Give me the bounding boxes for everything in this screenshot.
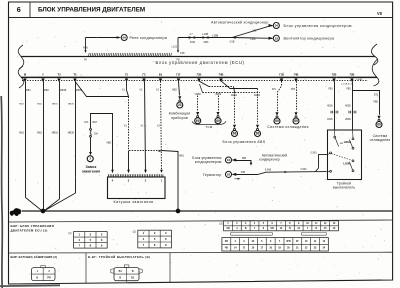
ABS wire 2 <box>257 89 259 125</box>
component circle 69 <box>255 131 261 137</box>
svg-text:ТЗ: ТЗ <box>57 74 61 77</box>
component lead arrow <box>216 112 219 116</box>
component circle 69 <box>293 118 299 124</box>
svg-text:МВ2Б: МВ2Б <box>68 104 74 106</box>
header cell divider <box>29 2 31 18</box>
svg-text:ВКЛ: ВКЛ <box>93 122 98 124</box>
svg-text:МВ2: МВ2 <box>37 133 42 135</box>
wire pin Г2В route <box>200 81 209 86</box>
svg-text:Блок управления двигателем (EC: Блок управления двигателем (ECU) <box>156 60 245 65</box>
wire РВ1 down to switch <box>334 81 336 130</box>
A/C feed wire <box>178 37 232 39</box>
branch wire pin Т5 to coil <box>76 82 129 97</box>
svg-text:Блок управления кондиционером: Блок управления кондиционером <box>284 24 352 28</box>
svg-text:охлаждения: охлаждения <box>370 138 391 142</box>
scan edge shadow left <box>1 96 2 288</box>
svg-text:V8: V8 <box>377 11 383 16</box>
svg-text:Термистор: Термистор <box>203 173 222 177</box>
ABS wire 1 <box>234 92 236 124</box>
svg-text:1.49В: 1.49В <box>202 34 209 36</box>
wire from thermistor to switch <box>236 172 326 175</box>
power bus wire <box>21 56 375 58</box>
svg-text:69: 69 <box>196 119 200 123</box>
svg-text:69: 69 <box>275 119 279 123</box>
coil wire 1 dashed <box>161 81 162 172</box>
body ground clamp icon <box>10 208 21 216</box>
component lead arrow <box>196 112 199 116</box>
wire from pin x=59 down <box>59 81 61 199</box>
svg-text:ВНР: КАТУШКА ЗАЖИГАНИЯ (2): ВНР: КАТУШКА ЗАЖИГАНИЯ (2) <box>11 255 58 259</box>
cooling wire 2 <box>296 81 298 111</box>
svg-text:Система охлаждения: Система охлаждения <box>267 125 309 129</box>
svg-text:0.5ЧВ: 0.5ЧВ <box>356 79 362 81</box>
svg-text:4Б2Б: 4Б2Б <box>345 106 351 108</box>
header bar bottom line <box>9 17 393 19</box>
small direction arrow <box>238 178 241 180</box>
strip squiggle right <box>372 59 379 86</box>
svg-text:4ВБ: 4ВБ <box>242 158 247 160</box>
svg-text:МВ1: МВ1 <box>19 133 24 135</box>
svg-text:Г4В: Г4В <box>219 74 224 77</box>
coil pin 3 arrow <box>127 170 130 173</box>
svg-text:МВ1Б: МВ1Б <box>52 104 58 106</box>
svg-text:10А: 10А <box>84 121 89 124</box>
branch L into switch HIGH <box>316 154 328 171</box>
svg-text:L103: L103 <box>172 46 178 49</box>
bus shielding hatch <box>89 53 172 56</box>
svg-text:69: 69 <box>216 119 220 123</box>
svg-text:выключатель: выключатель <box>333 186 356 190</box>
cooling wire 1 <box>278 81 282 111</box>
svg-text:1.5ВВ: 1.5ВВ <box>212 36 219 38</box>
switch left pin contacts <box>330 152 332 154</box>
converge diagonals to ground junction <box>26 198 42 211</box>
bottom row divider 1 <box>85 253 87 283</box>
svg-text:(1): (1) <box>68 231 71 235</box>
svg-text:6: 6 <box>17 5 21 14</box>
component circle 69 <box>215 118 221 124</box>
svg-text:В: В <box>119 277 121 280</box>
svg-text:МВ2: МВ2 <box>37 104 42 106</box>
wire to instrument cluster <box>179 81 180 95</box>
svg-text:ГЗ: ГЗ <box>143 74 146 77</box>
svg-text:ЗГВ: ЗГВ <box>291 89 296 91</box>
component pin <box>276 116 278 118</box>
component lead arrow <box>275 112 278 116</box>
svg-text:Катушка зажигания: Катушка зажигания <box>114 200 154 204</box>
ECU pin table upper bank <box>224 221 339 231</box>
svg-text:Г1Г: Г1Г <box>176 74 181 77</box>
svg-text:ДВИГАТЕЛЕМ ECU (3): ДВИГАТЕЛЕМ ECU (3) <box>11 228 48 232</box>
bottom row top line <box>9 251 393 254</box>
component pin <box>378 119 380 121</box>
dashed cross route <box>203 92 261 94</box>
svg-text:МВ1: МВ1 <box>26 90 31 92</box>
A/C unit circle 34 <box>231 159 236 162</box>
svg-text:кондиционер: кондиционер <box>259 158 280 162</box>
wire pin Г4В route <box>222 81 258 88</box>
svg-text:Г4В: Г4В <box>294 74 299 77</box>
svg-text:0.5В: 0.5В <box>230 42 235 44</box>
triple switch box <box>328 130 362 180</box>
svg-text:34: 34 <box>227 158 231 162</box>
connector pair 2 <box>202 36 206 39</box>
svg-text:БЛОК УПРАВЛЕНИЯ ДВИГАТЕЛЕМ: БЛОК УПРАВЛЕНИЯ ДВИГАТЕЛЕМ <box>38 6 145 13</box>
ignition coil box <box>108 177 166 199</box>
branch to A/C control unit <box>232 26 273 38</box>
A/C control unit circle 34 <box>269 24 274 27</box>
wire from pin x=25 down <box>25 81 27 197</box>
table section top line <box>9 220 393 222</box>
svg-text:20А: 20А <box>94 132 99 135</box>
svg-text:Г1В: Г1В <box>279 74 284 77</box>
svg-text:ТСМ: ТСМ <box>206 125 213 129</box>
component lead arrow <box>233 125 236 129</box>
svg-text:ЧМВ2: ЧМВ2 <box>215 94 222 96</box>
svg-text:0.85: 0.85 <box>180 53 185 55</box>
svg-text:кондиционером: кондиционером <box>195 160 222 164</box>
svg-text:РВ1: РВ1 <box>328 88 333 90</box>
ECU pin table lower bank <box>222 238 328 251</box>
svg-text:69: 69 <box>294 119 298 123</box>
svg-text:L203: L203 <box>250 39 256 41</box>
bus break squiggle left <box>18 45 24 69</box>
bus tap arrow M86 <box>84 50 86 53</box>
svg-text:Г2Б: Г2Б <box>350 74 355 77</box>
wire from pin x=75 down <box>75 81 77 193</box>
TCM brace <box>192 121 226 124</box>
svg-text:ЧВ: ЧВ <box>226 228 230 230</box>
switch contact top-left <box>334 130 336 136</box>
svg-text:Блок управления ABS: Блок управления ABS <box>223 140 266 144</box>
svg-text:7: 7 <box>89 157 91 161</box>
svg-text:зажигания: зажигания <box>82 170 100 174</box>
svg-text:МВ1: МВ1 <box>179 156 184 158</box>
svg-text:ЧБ: ЧБ <box>271 228 275 230</box>
wire to fan circle <box>232 37 273 40</box>
svg-text:ЗГВ: ЗГВ <box>286 241 291 243</box>
svg-text:2030: 2030 <box>190 42 196 44</box>
svg-text:1.5 ЧВ 0.5 В: 1.5 ЧВ 0.5 В <box>341 83 353 85</box>
svg-text:Г2В: Г2В <box>332 74 337 77</box>
svg-text:РВБ: РВБ <box>373 102 378 104</box>
dashed link wire <box>129 150 162 152</box>
svg-text:2Б2Б: 2Б2Б <box>345 119 351 121</box>
coil pin 4 arrow <box>111 170 114 173</box>
svg-text:Реле кондиционера: Реле кондиционера <box>130 36 168 40</box>
ground rail <box>22 210 393 212</box>
ground junction 2 <box>176 209 181 214</box>
switch contacts HIGH <box>352 130 355 138</box>
coil pin 2 arrow <box>144 170 147 173</box>
connector pair 3 <box>231 36 236 39</box>
svg-text:M86: M86 <box>83 46 88 49</box>
svg-text:приборов: приборов <box>171 116 188 120</box>
svg-text:52: 52 <box>227 173 231 177</box>
svg-text:(3): (3) <box>219 222 222 226</box>
TCM wire 2 <box>218 96 220 112</box>
svg-text:M: M <box>24 74 26 77</box>
svg-text:МВ2: МВ2 <box>107 143 112 145</box>
svg-text:69: 69 <box>233 132 237 136</box>
relay connector arrow <box>117 36 122 39</box>
component lead arrow <box>294 112 297 116</box>
svg-text:2051: 2051 <box>203 42 209 44</box>
component lead arrow <box>256 125 259 129</box>
dashed route to ABS <box>209 86 234 88</box>
bus break squiggle right <box>371 44 377 65</box>
scan bottom edge <box>0 284 60 287</box>
svg-text:В: В <box>132 270 134 273</box>
svg-text:ЗВ: ЗВ <box>225 241 228 243</box>
coil connector face <box>41 266 46 268</box>
svg-text:LOW: LOW <box>343 162 350 166</box>
svg-text:69: 69 <box>256 132 260 136</box>
wire from pin x=43 down <box>43 81 45 210</box>
component circle 69 <box>376 122 382 128</box>
coil connector comb <box>109 174 163 176</box>
component pin <box>257 128 259 130</box>
svg-text:АМВ2: АМВ2 <box>254 94 261 97</box>
component pin <box>179 100 181 102</box>
svg-text:ЧМВ2: ЧМВ2 <box>195 94 202 96</box>
svg-text:0.5КЗ: 0.5КЗ <box>311 152 318 154</box>
svg-text:69: 69 <box>122 36 126 40</box>
component pin <box>295 116 297 118</box>
switch contacts LOW <box>352 160 354 162</box>
svg-text:69: 69 <box>377 123 381 127</box>
svg-text:ЗГС: ЗГС <box>272 89 277 91</box>
svg-text:РА: РА <box>84 58 87 61</box>
wire to ignition lock <box>90 137 92 152</box>
svg-text:Автоматический кондиционер: Автоматический кондиционер <box>211 21 269 25</box>
component circle 69 <box>274 118 280 124</box>
svg-text:ЧВ: ЧВ <box>225 248 229 250</box>
svg-text:МО: МО <box>253 30 257 32</box>
svg-text:МВ2Б: МВ2Б <box>68 133 75 135</box>
svg-text:1Б1Б: 1Б1Б <box>327 119 333 121</box>
strip squiggle left <box>18 66 24 88</box>
component circle 23 <box>177 102 183 108</box>
component pin <box>234 128 236 130</box>
svg-text:РВ2: РВ2 <box>346 88 351 90</box>
relay circle 69 <box>121 35 127 41</box>
svg-text:РЛ: РЛ <box>48 277 51 280</box>
wire РВ2 down to switch <box>352 81 354 130</box>
component circle 69 <box>195 118 201 124</box>
wire to right cooling component <box>353 91 380 115</box>
svg-text:АМВ1: АМВ1 <box>231 94 238 97</box>
svg-text:34: 34 <box>275 24 279 28</box>
svg-text:В: В <box>36 277 38 280</box>
svg-text:0.5АВ: 0.5АВ <box>265 169 272 172</box>
component pin <box>197 116 199 118</box>
wire to ground junction <box>162 151 179 211</box>
pin Г1 jog <box>127 81 129 96</box>
A/C fan circle 23 <box>269 37 274 40</box>
wire from 34 with down arrow <box>236 161 251 164</box>
TCM wire 1 <box>197 96 199 112</box>
svg-text:(2): (2) <box>133 230 136 234</box>
component lead arrow <box>377 116 380 120</box>
svg-text:МВ2: МВ2 <box>44 90 49 92</box>
ignition lock circle 7 <box>87 156 93 162</box>
component circle 69 <box>232 131 238 137</box>
ECU connector strip line <box>21 76 377 78</box>
bus tap arrow L103 <box>177 50 179 53</box>
svg-text:HIGH: HIGH <box>344 140 351 144</box>
svg-text:0.5КЗ: 0.5КЗ <box>301 169 308 171</box>
strip dashed row <box>22 80 368 82</box>
component lead arrow <box>178 96 181 100</box>
coil wire 3 lower solid <box>128 151 130 173</box>
svg-text:МВ1Б: МВ1Б <box>60 90 67 92</box>
lead arrow <box>89 152 92 155</box>
svg-text:Г2В: Г2В <box>197 74 202 77</box>
ignition routing loop <box>91 114 113 173</box>
bottom row divider 2 <box>169 253 171 282</box>
svg-text:Вентилятор кондиционера: Вентилятор кондиционера <box>284 37 335 41</box>
switch connector face <box>124 265 129 268</box>
svg-text:МВ1: МВ1 <box>19 104 24 106</box>
svg-text:4Б1Б: 4Б1Б <box>327 106 333 108</box>
svg-text:Замок: Замок <box>86 165 97 169</box>
svg-text:23: 23 <box>275 36 279 40</box>
wire to A/C relay <box>86 37 118 39</box>
svg-text:В-ВГ: ТРОЙНОЙ ВЫКЛЮЧАТЕЛЬ (В): В-ВГ: ТРОЙНОЙ ВЫКЛЮЧАТЕЛЬ (В) <box>88 255 150 259</box>
svg-text:МВ1Б: МВ1Б <box>52 133 59 135</box>
connector pair 1 <box>189 36 193 39</box>
ground junction 1 <box>41 209 46 214</box>
component pin <box>217 116 219 118</box>
thermistor circle 52 <box>231 173 236 176</box>
svg-text:23: 23 <box>178 103 182 107</box>
svg-text:ЗЛБ: ЗЛБ <box>241 172 246 174</box>
svg-text:МВ2: МВ2 <box>172 90 177 92</box>
coil pin 1 arrow <box>160 170 163 173</box>
coil wire 2 <box>145 81 146 172</box>
connector shape bars <box>230 232 272 235</box>
coil wire 3 dashed <box>128 97 130 151</box>
